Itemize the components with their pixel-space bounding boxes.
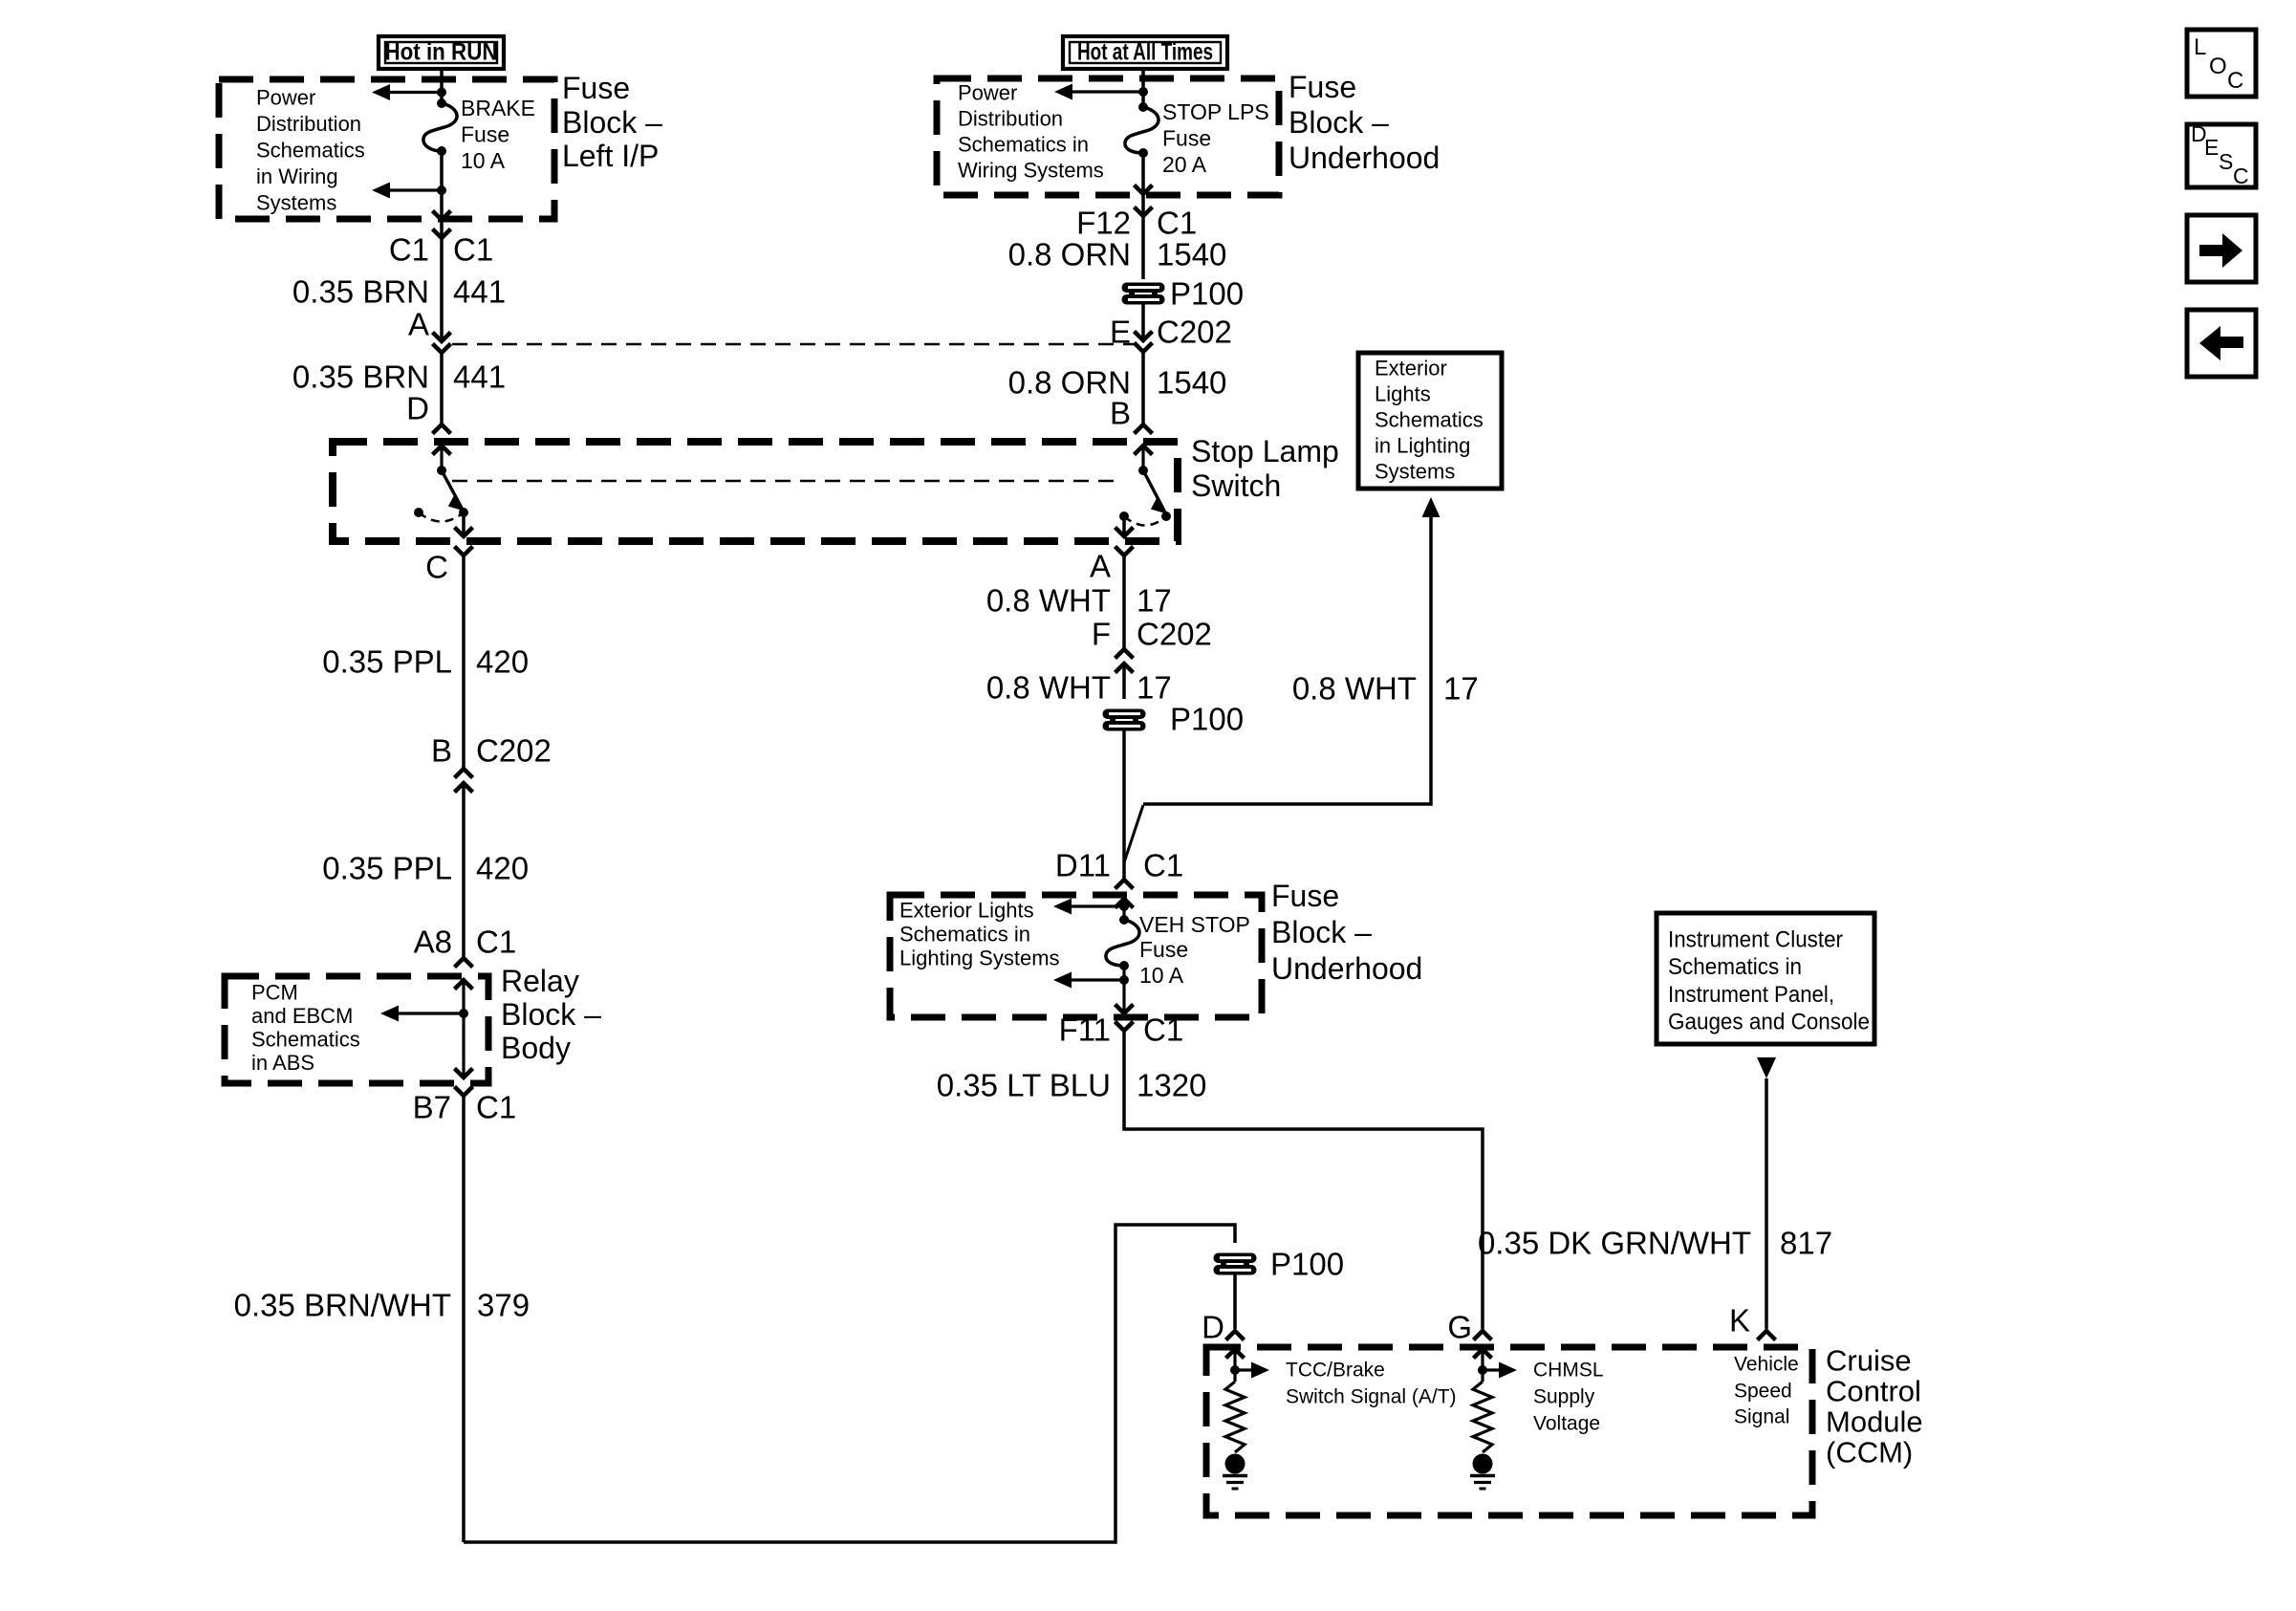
svg-text:CHMSL: CHMSL	[1533, 1360, 1604, 1382]
svg-text:B: B	[431, 733, 452, 769]
svg-text:PCM: PCM	[251, 981, 298, 1005]
svg-text:BRAKE: BRAKE	[461, 96, 535, 120]
svg-text:A: A	[1090, 549, 1111, 584]
svg-text:Voltage: Voltage	[1533, 1413, 1600, 1435]
svg-text:Speed: Speed	[1734, 1381, 1792, 1403]
svg-text:C202: C202	[1137, 617, 1212, 652]
svg-text:Signal: Signal	[1734, 1406, 1789, 1428]
svg-text:Lights: Lights	[1375, 382, 1431, 406]
svg-text:Body: Body	[501, 1031, 571, 1065]
svg-text:Cruise: Cruise	[1826, 1344, 1912, 1378]
svg-text:Systems: Systems	[1375, 460, 1455, 484]
svg-text:A: A	[408, 307, 429, 342]
svg-text:420: 420	[476, 851, 529, 886]
svg-text:Supply: Supply	[1533, 1386, 1595, 1408]
svg-text:Fuse: Fuse	[1289, 70, 1356, 104]
svg-text:Block –: Block –	[562, 105, 662, 140]
svg-text:0.8 WHT: 0.8 WHT	[986, 670, 1111, 706]
svg-text:Control: Control	[1826, 1375, 1921, 1408]
svg-text:17: 17	[1137, 670, 1172, 706]
svg-text:Power: Power	[256, 86, 315, 110]
svg-text:0.35 PPL: 0.35 PPL	[322, 851, 452, 886]
svg-text:Underhood: Underhood	[1289, 141, 1440, 175]
svg-text:441: 441	[453, 274, 506, 310]
svg-text:Schematics: Schematics	[1375, 408, 1484, 432]
svg-text:Exterior: Exterior	[1375, 357, 1447, 381]
svg-text:D: D	[1202, 1310, 1224, 1345]
svg-text:F: F	[1092, 617, 1111, 652]
svg-text:C1: C1	[476, 1090, 516, 1125]
svg-text:Fuse: Fuse	[1139, 937, 1188, 962]
svg-text:10 A: 10 A	[461, 148, 506, 173]
svg-text:Gauges and Console: Gauges and Console	[1668, 1010, 1870, 1035]
svg-text:0.35 BRN: 0.35 BRN	[292, 359, 429, 395]
svg-text:C202: C202	[476, 733, 552, 769]
svg-text:B: B	[1110, 396, 1131, 431]
svg-text:0.35 BRN: 0.35 BRN	[292, 274, 429, 310]
svg-text:and EBCM: and EBCM	[251, 1004, 353, 1028]
svg-text:0.8 ORN: 0.8 ORN	[1008, 237, 1131, 272]
svg-text:20 A: 20 A	[1162, 152, 1207, 177]
svg-text:F11: F11	[1059, 1012, 1111, 1048]
svg-text:Schematics: Schematics	[256, 139, 365, 163]
svg-text:D: D	[406, 391, 429, 426]
svg-text:0.35 PPL: 0.35 PPL	[322, 644, 452, 680]
svg-text:1320: 1320	[1137, 1068, 1206, 1103]
svg-text:17: 17	[1137, 583, 1172, 619]
svg-text:F12: F12	[1076, 206, 1131, 241]
svg-text:in Lighting: in Lighting	[1375, 434, 1470, 458]
svg-text:1540: 1540	[1157, 237, 1226, 272]
svg-text:Block –: Block –	[1289, 105, 1389, 140]
svg-text:in Wiring: in Wiring	[256, 164, 338, 188]
svg-text:E: E	[1110, 315, 1131, 350]
svg-text:Fuse: Fuse	[562, 71, 630, 105]
svg-text:TCC/Brake: TCC/Brake	[1286, 1360, 1385, 1382]
svg-text:Fuse: Fuse	[1162, 126, 1211, 151]
svg-text:Fuse: Fuse	[1271, 879, 1339, 913]
svg-text:VEH STOP: VEH STOP	[1139, 912, 1250, 937]
svg-text:0.8 WHT: 0.8 WHT	[986, 583, 1111, 619]
svg-text:G: G	[1447, 1310, 1472, 1345]
svg-text:C: C	[425, 550, 448, 585]
svg-text:(CCM): (CCM)	[1826, 1436, 1913, 1469]
svg-text:C1: C1	[1143, 848, 1183, 883]
svg-text:Block –: Block –	[501, 997, 601, 1032]
svg-text:P100: P100	[1170, 276, 1244, 312]
svg-text:Fuse: Fuse	[461, 122, 509, 147]
svg-text:Block –: Block –	[1271, 915, 1372, 949]
svg-text:C1: C1	[476, 925, 516, 960]
svg-text:Hot at All Times: Hot at All Times	[1077, 39, 1213, 66]
svg-text:C: C	[2227, 68, 2243, 94]
svg-text:Module: Module	[1826, 1405, 1923, 1439]
svg-text:0.8 WHT: 0.8 WHT	[1292, 671, 1417, 707]
svg-text:441: 441	[453, 359, 506, 395]
svg-text:C: C	[2233, 163, 2249, 188]
svg-text:0.35 BRN/WHT: 0.35 BRN/WHT	[234, 1288, 451, 1323]
svg-text:Hot in RUN: Hot in RUN	[385, 39, 498, 66]
svg-text:STOP LPS: STOP LPS	[1162, 99, 1269, 124]
svg-text:Stop Lamp: Stop Lamp	[1191, 434, 1339, 468]
svg-text:Wiring Systems: Wiring Systems	[958, 159, 1104, 183]
svg-text:Vehicle: Vehicle	[1734, 1354, 1799, 1376]
svg-text:379: 379	[477, 1288, 530, 1323]
svg-text:0.35 LT BLU: 0.35 LT BLU	[937, 1068, 1111, 1103]
svg-text:L: L	[2194, 34, 2206, 60]
svg-text:0.35 DK GRN/WHT: 0.35 DK GRN/WHT	[1478, 1226, 1751, 1261]
svg-text:in ABS: in ABS	[251, 1051, 314, 1075]
svg-text:Relay: Relay	[501, 964, 579, 998]
svg-text:Exterior Lights: Exterior Lights	[899, 899, 1034, 923]
svg-text:Schematics in: Schematics in	[958, 133, 1089, 157]
svg-text:17: 17	[1443, 671, 1479, 707]
svg-text:A8: A8	[414, 925, 452, 960]
svg-text:Power: Power	[958, 81, 1017, 105]
svg-text:Lighting Systems: Lighting Systems	[899, 947, 1060, 970]
svg-text:10 A: 10 A	[1139, 963, 1184, 988]
svg-text:C1: C1	[453, 232, 493, 268]
svg-text:Instrument Cluster: Instrument Cluster	[1668, 927, 1843, 953]
svg-text:C1: C1	[389, 232, 429, 268]
svg-text:E: E	[2204, 135, 2219, 160]
svg-text:1540: 1540	[1157, 365, 1226, 401]
svg-text:O: O	[2209, 54, 2227, 79]
svg-text:Schematics in: Schematics in	[1668, 954, 1802, 980]
svg-text:Systems: Systems	[256, 191, 336, 215]
svg-text:S: S	[2219, 149, 2233, 174]
svg-text:K: K	[1729, 1303, 1750, 1339]
svg-text:Instrument Panel,: Instrument Panel,	[1668, 982, 1834, 1008]
svg-text:C202: C202	[1157, 315, 1232, 350]
svg-text:P100: P100	[1170, 702, 1244, 737]
svg-text:B7: B7	[413, 1090, 451, 1125]
svg-text:D11: D11	[1055, 848, 1111, 883]
svg-text:Distribution: Distribution	[256, 112, 361, 136]
svg-text:Schematics: Schematics	[251, 1028, 360, 1052]
svg-text:Underhood: Underhood	[1271, 951, 1422, 986]
svg-text:Distribution: Distribution	[958, 107, 1063, 131]
svg-text:Switch Signal (A/T): Switch Signal (A/T)	[1286, 1386, 1457, 1408]
svg-text:420: 420	[476, 644, 529, 680]
svg-text:C1: C1	[1143, 1012, 1183, 1048]
svg-text:C1: C1	[1157, 206, 1197, 241]
svg-text:P100: P100	[1270, 1247, 1344, 1282]
svg-text:817: 817	[1780, 1226, 1832, 1261]
svg-text:Left I/P: Left I/P	[562, 139, 659, 173]
svg-text:Switch: Switch	[1191, 468, 1281, 503]
svg-text:Schematics in: Schematics in	[899, 923, 1030, 947]
